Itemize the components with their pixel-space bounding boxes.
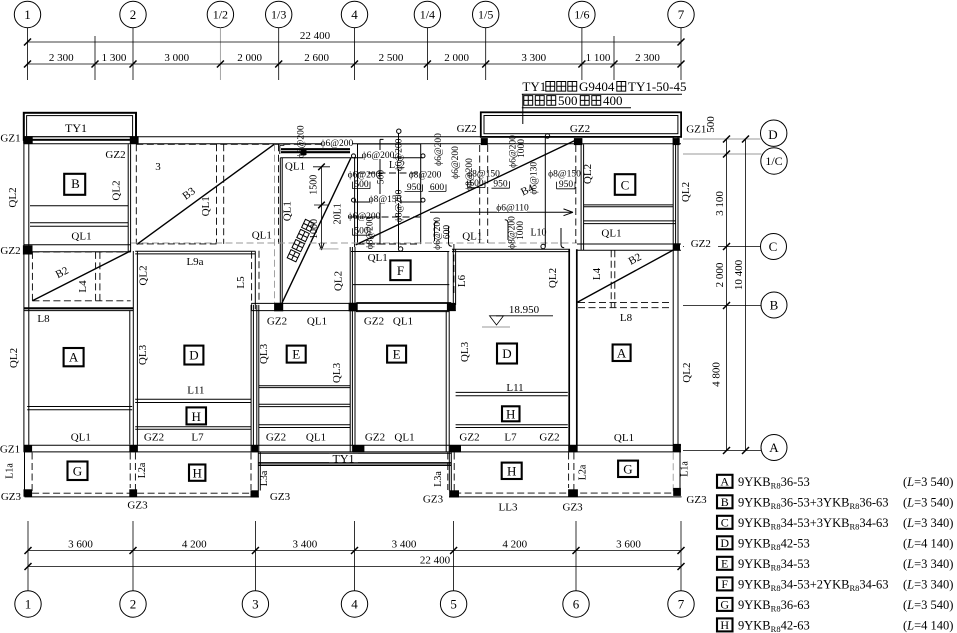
- room A2 top dashed: [578, 303, 672, 308]
- annotation line2 width note: [524, 93, 623, 108]
- slab box C: [615, 174, 636, 195]
- axis circle 1 bottom: [15, 591, 41, 617]
- stair room right wall upper: [354, 158, 356, 247]
- panel B2 left dashed outline: [32, 252, 130, 301]
- balcony bottom-right dashed bottom: [454, 492, 673, 494]
- balcony bottom-right east dashed edge: [672, 453, 674, 493]
- column GZ2 axisA 5: [450, 445, 461, 452]
- svg-text:2 300: 2 300: [49, 52, 74, 64]
- balcony bottom-left west edge: [24, 452, 26, 490]
- label phi6@200 L12 top: [362, 150, 395, 161]
- axis circle 1/6: [569, 1, 595, 27]
- total dim line 22400: [28, 41, 682, 43]
- axis circle 7 bottom: [668, 591, 694, 617]
- svg-text:GZ2: GZ2: [144, 432, 164, 444]
- svg-text:1000: 1000: [516, 221, 526, 240]
- axis circle 1/3: [266, 1, 292, 27]
- panel 3 dashed outline: [136, 144, 348, 244]
- panel F right dashed: [453, 244, 455, 296]
- svg-text:QL3: QL3: [258, 343, 270, 364]
- bar end hooks corridor: [280, 145, 285, 154]
- thick distribution bar top corridor: [281, 149, 350, 152]
- svg-text:4 800: 4 800: [711, 362, 723, 387]
- svg-text:QL1: QL1: [252, 230, 272, 242]
- svg-text:(L=3 340): (L=3 340): [903, 516, 953, 530]
- stair dim line: [313, 167, 330, 250]
- svg-text:9YKBR834-53+2YKBR834-63: 9YKBR834-53+2YKBR834-63: [738, 578, 889, 594]
- svg-text:C: C: [621, 178, 630, 193]
- slab box G balcony1: [68, 462, 88, 481]
- axis circle B: [761, 292, 787, 318]
- svg-text:D: D: [720, 536, 729, 550]
- svg-text:6: 6: [573, 597, 580, 612]
- panel boundary dashed near stair: [278, 144, 280, 244]
- segment dim line: [28, 63, 682, 65]
- axis stems top: [28, 28, 682, 80]
- slab box B: [64, 174, 85, 195]
- svg-text:H: H: [720, 618, 729, 632]
- column GZ3 b5: [568, 489, 578, 496]
- svg-text:A: A: [720, 474, 729, 488]
- room C beam lines: [584, 205, 676, 224]
- svg-text:L1a: L1a: [679, 461, 690, 477]
- svg-text:600: 600: [443, 225, 453, 240]
- svg-text:ϕ6@130: ϕ6@130: [530, 162, 540, 195]
- label phi6@110: [496, 203, 529, 214]
- label 500 boxed a: [353, 180, 371, 190]
- svg-text:GZ2: GZ2: [267, 316, 287, 328]
- svg-text:ϕ6@200: ϕ6@200: [321, 139, 354, 149]
- axis circle 2 bottom: [120, 591, 146, 617]
- total dim line bottom: [28, 566, 681, 568]
- slab box H balcony1: [189, 465, 205, 481]
- svg-text:C: C: [721, 515, 729, 529]
- svg-text:ϕ8@200: ϕ8@200: [409, 171, 442, 181]
- svg-text:GZ2: GZ2: [539, 432, 559, 444]
- panel L12 bottom dashed: [358, 243, 421, 245]
- annotation underline2: [522, 107, 631, 109]
- legend row C: [717, 515, 953, 531]
- svg-text:TY1: TY1: [65, 121, 87, 135]
- svg-text:2: 2: [130, 7, 137, 22]
- svg-text:18.950: 18.950: [509, 304, 540, 316]
- svg-text:(L=4 140): (L=4 140): [903, 619, 953, 633]
- svg-text:ϕ8@200: ϕ8@200: [395, 189, 405, 222]
- svg-text:4: 4: [351, 597, 358, 612]
- axis circle 4 bottom: [341, 591, 367, 617]
- svg-text:L8: L8: [620, 312, 633, 324]
- leader line axis D: [683, 138, 760, 140]
- wall room A top: [24, 307, 133, 309]
- room B beam lines: [30, 206, 128, 227]
- svg-text:3 600: 3 600: [68, 539, 93, 551]
- svg-text:QL1: QL1: [601, 228, 621, 240]
- svg-text:GZ3: GZ3: [686, 494, 707, 506]
- svg-text:QL2: QL2: [333, 271, 345, 291]
- svg-text:A: A: [769, 440, 779, 455]
- svg-text:C: C: [769, 239, 778, 254]
- axis circle 1/4: [414, 1, 440, 27]
- axis circle 5 bottom: [440, 591, 466, 617]
- axis circle D: [761, 120, 787, 146]
- svg-text:3: 3: [252, 597, 259, 612]
- svg-text:1/4: 1/4: [420, 8, 435, 22]
- column GZ2 top axis1/6: [574, 138, 583, 145]
- label L12: [386, 160, 408, 171]
- svg-text:B: B: [71, 176, 80, 191]
- label phi6@200 struck: [348, 212, 381, 222]
- svg-text:QL1: QL1: [614, 432, 634, 444]
- panel F mid beam: [353, 284, 449, 286]
- svg-text:D: D: [502, 346, 511, 361]
- slab box H room D2: [502, 406, 520, 421]
- svg-text:QL1: QL1: [281, 201, 293, 221]
- svg-text:GZ2: GZ2: [457, 123, 477, 135]
- svg-text:L1a: L1a: [5, 463, 16, 479]
- dashed axis 1/5 panel lines: [480, 145, 488, 243]
- svg-text:3 000: 3 000: [164, 52, 189, 64]
- svg-text:2 500: 2 500: [379, 52, 404, 64]
- balcony bottom-right floor line: [449, 496, 682, 498]
- svg-text:1/C: 1/C: [765, 154, 782, 168]
- svg-text:QL2: QL2: [111, 180, 123, 200]
- svg-text:2: 2: [130, 597, 137, 612]
- extension lines top: [95, 36, 614, 80]
- wall axis C left: [24, 245, 131, 252]
- axis stems bottom: [28, 521, 681, 591]
- leader line axis A: [683, 450, 762, 452]
- svg-text:2 600: 2 600: [304, 52, 329, 64]
- leader line axis B: [683, 305, 762, 307]
- svg-text:2 000: 2 000: [444, 52, 469, 64]
- svg-text:L2a: L2a: [578, 464, 589, 480]
- svg-text:GZ2: GZ2: [266, 432, 286, 444]
- svg-text:L4: L4: [77, 280, 89, 293]
- svg-text:A: A: [69, 350, 79, 365]
- legend row B: [717, 495, 953, 511]
- wall right axis 7: [673, 138, 678, 452]
- svg-text:H: H: [192, 409, 201, 424]
- svg-text:F: F: [721, 577, 728, 591]
- svg-text:G: G: [623, 462, 632, 477]
- stair chinese note rotated: [287, 219, 314, 262]
- svg-text:GZ3: GZ3: [563, 502, 584, 514]
- legend row H: [717, 618, 953, 633]
- right dim line inner: [726, 139, 728, 451]
- svg-text:LL3: LL3: [499, 502, 518, 514]
- annotation underline1: [522, 93, 682, 95]
- beam B4 diagonal: [356, 140, 577, 245]
- svg-text:ϕ8@200: ϕ8@200: [366, 216, 376, 249]
- svg-text:QL1: QL1: [393, 316, 413, 328]
- hook glyph a: [435, 221, 438, 241]
- label 500 boxed b: [353, 227, 371, 237]
- label phi6@200 corridor: [321, 138, 354, 149]
- svg-text:QL3: QL3: [331, 362, 343, 383]
- svg-text:(L=3 540): (L=3 540): [903, 598, 953, 612]
- wall axis B middle: [251, 303, 456, 310]
- svg-text:QL1: QL1: [285, 161, 305, 173]
- panel 3 right gray dashed: [274, 144, 276, 302]
- room D beam lines: [135, 399, 251, 429]
- svg-text:3 400: 3 400: [293, 539, 318, 551]
- column GZ2 axisA 6: [568, 445, 576, 452]
- svg-text:D: D: [768, 127, 777, 142]
- column axisB 5: [447, 303, 456, 310]
- column GZ3 b6: [673, 488, 681, 496]
- svg-text:ϕ6@200: ϕ6@200: [395, 138, 405, 171]
- svg-text:TY1: TY1: [333, 451, 355, 465]
- svg-text:QL1: QL1: [307, 316, 327, 328]
- svg-text:ϕ6@110: ϕ6@110: [496, 204, 529, 214]
- svg-text:1: 1: [24, 7, 31, 22]
- svg-text:GZ3: GZ3: [423, 494, 444, 506]
- beam B3 diagonal: [137, 144, 274, 244]
- slab box G balcony2: [618, 461, 638, 477]
- svg-text:7: 7: [678, 7, 685, 22]
- svg-text:2 300: 2 300: [635, 52, 660, 64]
- annotation leader: [522, 94, 524, 124]
- axis circle 1/2: [207, 1, 233, 27]
- label 950 a: [405, 183, 423, 193]
- svg-text:QL3: QL3: [459, 341, 471, 362]
- column axisB 1/3: [274, 303, 283, 312]
- axis circle A: [761, 435, 787, 461]
- svg-text:2 000: 2 000: [714, 262, 726, 287]
- svg-text:F: F: [397, 263, 404, 278]
- svg-text:GZ2: GZ2: [365, 432, 385, 444]
- balcony TY1 top-left outer: [24, 113, 136, 140]
- column GZ3 b4: [449, 490, 459, 497]
- svg-text:QL2: QL2: [7, 187, 19, 207]
- balcony bottom-left dashed verticals: [32, 453, 251, 494]
- svg-text:L9a: L9a: [186, 256, 203, 268]
- axis stem 1/2 gray: [219, 28, 221, 80]
- svg-text:500: 500: [558, 93, 578, 108]
- column GZ1 axisA 7: [673, 444, 681, 452]
- svg-text:GZ1: GZ1: [686, 124, 706, 136]
- svg-text:5: 5: [450, 597, 457, 612]
- label QL1 stair top: [283, 161, 307, 173]
- room C left wall: [581, 144, 584, 250]
- room D2 top wall: [452, 249, 570, 251]
- svg-text:2 000: 2 000: [237, 52, 262, 64]
- axis circle 1/C: [761, 148, 787, 174]
- column GZ3 b1: [24, 489, 33, 496]
- stair room top: [280, 157, 356, 159]
- svg-text:TY1: TY1: [522, 79, 546, 94]
- column GZ1 top axis7: [673, 138, 680, 145]
- panel F top: [351, 251, 449, 253]
- label TY1 canopy: [329, 451, 358, 465]
- svg-text:GZ2: GZ2: [570, 123, 590, 135]
- panel F bottom: [356, 302, 451, 304]
- svg-text:L4: L4: [591, 267, 603, 280]
- svg-text:L10: L10: [530, 227, 546, 238]
- ticks right outer: [742, 136, 749, 455]
- legend row D: [717, 536, 953, 552]
- svg-text:20L1: 20L1: [332, 203, 343, 224]
- landing west solid line: [254, 251, 256, 309]
- slab box H balcony2: [502, 463, 522, 479]
- leader line axis C: [683, 246, 760, 248]
- corridor south wall / L9a top: [135, 251, 255, 254]
- svg-text:QL3: QL3: [137, 344, 149, 365]
- column GZ1 axisA 1: [24, 445, 33, 452]
- svg-text:L2a: L2a: [137, 462, 148, 478]
- label GZ2 right of C: [684, 237, 718, 250]
- dashed axis 1/6 panel line: [575, 145, 577, 243]
- label 600 bracket left: [468, 179, 486, 189]
- balcony bottom-right dashed verticals: [448, 453, 574, 494]
- axis circle 6 bottom: [563, 591, 589, 617]
- axis circle 7: [668, 1, 694, 27]
- legend row F: [717, 577, 953, 593]
- svg-text:500: 500: [377, 170, 387, 185]
- axis circle 3 bottom: [242, 591, 268, 617]
- wall room C bottom: [577, 244, 681, 250]
- svg-text:(L=3 340): (L=3 340): [903, 578, 953, 592]
- svg-text:ϕ6@200: ϕ6@200: [451, 146, 461, 179]
- slab box D2: [497, 344, 517, 364]
- svg-text:QL2: QL2: [137, 265, 149, 285]
- slab box H room D: [187, 407, 207, 424]
- svg-text:22 400: 22 400: [420, 555, 451, 567]
- hook glyph b: [449, 227, 452, 247]
- svg-text:1/2: 1/2: [213, 8, 228, 22]
- svg-text:E: E: [292, 347, 300, 362]
- slab box D: [184, 346, 203, 365]
- svg-text:QL1: QL1: [394, 432, 414, 444]
- svg-text:7: 7: [678, 597, 685, 612]
- svg-text:1 100: 1 100: [586, 52, 611, 64]
- slab box E room E: [387, 346, 406, 363]
- balcony top-right inner: [484, 116, 678, 134]
- canopy side walls: [258, 452, 451, 490]
- svg-text:L6: L6: [456, 274, 468, 287]
- column GZ2 axisA 4: [353, 445, 364, 452]
- column GZ3 b3: [251, 490, 259, 497]
- svg-text:4 200: 4 200: [182, 539, 207, 551]
- svg-text:3 100: 3 100: [714, 191, 726, 216]
- svg-text:B: B: [721, 495, 729, 509]
- hook glyph c: [505, 220, 508, 240]
- svg-text:10 400: 10 400: [733, 259, 745, 290]
- svg-text:H: H: [193, 466, 202, 481]
- vertical rebar bar v2: [397, 129, 403, 251]
- column GZ3 b2: [129, 489, 137, 496]
- svg-text:4: 4: [351, 7, 358, 22]
- svg-text:1/6: 1/6: [574, 8, 589, 22]
- slab box F: [390, 260, 410, 280]
- svg-text:9YKBR834-53+3YKBR834-63: 9YKBR834-53+3YKBR834-63: [738, 516, 889, 532]
- ticks on total line: [24, 39, 685, 46]
- svg-text:(L=3 540): (L=3 540): [903, 496, 953, 510]
- svg-text:GZ2: GZ2: [691, 238, 711, 250]
- column axisB 4: [349, 303, 358, 312]
- balcony top-right outer: [481, 112, 681, 137]
- svg-text:500: 500: [705, 116, 717, 133]
- svg-text:GZ2: GZ2: [364, 316, 384, 328]
- svg-text:ϕ8@150: ϕ8@150: [548, 169, 581, 179]
- column GZ1 top-left: [23, 136, 33, 143]
- column GZ2 axisA 3: [252, 445, 259, 452]
- rebar bar L12 top with hooks: [352, 154, 426, 158]
- room D2 beam lines: [456, 392, 568, 427]
- column GZ2 axisA 2: [129, 445, 137, 452]
- svg-text:1: 1: [25, 597, 32, 612]
- beam B2 left diagonal: [32, 251, 130, 301]
- svg-text:QL2: QL2: [680, 182, 692, 202]
- wall axis 3: [251, 305, 259, 452]
- stair flight diagonal: [282, 158, 351, 303]
- svg-text:B: B: [770, 298, 779, 313]
- stair arrow: [319, 243, 324, 250]
- wall room B right: [128, 144, 130, 251]
- dashed slab split lines: [350, 173, 421, 217]
- TY1 canopy thick edge: [258, 463, 451, 465]
- leader line axis 1/C: [683, 153, 762, 155]
- panel L12 outline: [358, 144, 421, 244]
- stair dim ticks: [318, 164, 325, 209]
- svg-text:ϕ6@200: ϕ6@200: [434, 133, 444, 166]
- svg-text:L11: L11: [506, 382, 523, 394]
- svg-text:L7: L7: [504, 432, 517, 444]
- svg-text:GZ3: GZ3: [127, 500, 148, 512]
- room A beam lines: [27, 407, 132, 410]
- svg-text:QL2: QL2: [8, 348, 20, 368]
- column GZ2 axisC left: [23, 245, 33, 254]
- svg-text:(L=4 140): (L=4 140): [903, 537, 953, 551]
- axis circle 2: [120, 1, 146, 27]
- svg-text:H: H: [506, 407, 515, 422]
- vertical rebar bar v1: [377, 139, 384, 244]
- svg-text:H: H: [507, 464, 516, 479]
- svg-text:1/5: 1/5: [478, 8, 493, 22]
- axis circle 4: [341, 1, 367, 27]
- axis circle 1/5: [473, 1, 499, 27]
- svg-text:L8: L8: [37, 313, 50, 325]
- svg-text:22 400: 22 400: [300, 30, 331, 42]
- bar phi6@110 with arrow: [430, 209, 573, 216]
- svg-text:G9404: G9404: [579, 79, 615, 94]
- wall left axis 1: [24, 138, 29, 452]
- wall axis D: [24, 137, 681, 144]
- svg-text:G: G: [720, 597, 729, 611]
- svg-text:GZ2: GZ2: [0, 245, 20, 257]
- legend row A: [717, 474, 953, 490]
- svg-text:D: D: [189, 348, 198, 363]
- ticks right inner: [723, 136, 730, 455]
- svg-text:GZ3: GZ3: [1, 491, 22, 503]
- room D2 left wall upper: [453, 249, 455, 305]
- svg-text:L3a: L3a: [433, 471, 444, 487]
- panel F right edge: [447, 252, 449, 304]
- svg-text:GZ2: GZ2: [105, 149, 125, 161]
- hook glyph d: [561, 228, 564, 248]
- svg-text:3 300: 3 300: [521, 52, 546, 64]
- svg-text:ϕ6@200: ϕ6@200: [297, 125, 307, 158]
- TY1 canopy strip mid: [258, 452, 451, 454]
- balcony bottom-left dashed bottom: [32, 492, 252, 494]
- legend row G: [717, 597, 953, 613]
- svg-text:QL1: QL1: [368, 252, 388, 264]
- stair arrow gray stub: [319, 248, 339, 250]
- svg-text:L11: L11: [187, 385, 204, 397]
- annotation line1 TY1 ref: [522, 79, 686, 94]
- svg-text:GZ1: GZ1: [0, 444, 20, 456]
- svg-text:(L=3 540): (L=3 540): [903, 475, 953, 489]
